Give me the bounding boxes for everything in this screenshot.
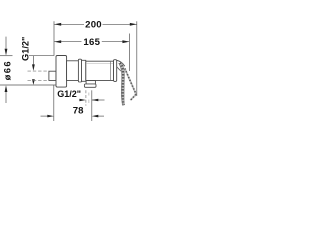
dia66 bottom extension line xyxy=(0,84,56,86)
handle grip band base xyxy=(120,63,124,105)
wall extension line bottom xyxy=(53,85,55,121)
G1/2 bottom leader arrow left xyxy=(79,99,86,102)
dimension 200 arrowheads xyxy=(54,23,137,26)
flange ring B xyxy=(82,60,86,81)
dimension 165 line xyxy=(54,41,129,43)
outlet hidden thread left xyxy=(85,90,87,105)
handle lower attach edge xyxy=(117,67,121,71)
dimension 200 line xyxy=(54,23,137,25)
body tube xyxy=(67,61,79,81)
dia66 top arrow xyxy=(5,37,8,56)
escutcheon plate xyxy=(56,56,67,88)
body shading line xyxy=(86,62,113,64)
G1/2 bottom leader arrow right xyxy=(92,99,105,102)
hidden supply pipe bottom line xyxy=(28,79,49,81)
extension line right 165 xyxy=(128,34,130,72)
inlet pipe xyxy=(49,71,56,80)
hidden supply pipe top line xyxy=(28,70,49,72)
dimension 165 arrowheads xyxy=(54,40,129,43)
svg-text:78: 78 xyxy=(73,106,84,117)
end cap xyxy=(114,60,117,82)
handle paddle band base xyxy=(125,69,136,101)
dia66 bottom arrow xyxy=(5,85,8,103)
G1/2 left leader horizontal xyxy=(29,55,54,57)
dimension 78 line right xyxy=(92,115,104,118)
flange ring A xyxy=(78,59,81,82)
dimension 78 line left xyxy=(41,115,54,118)
svg-text:ø66: ø66 xyxy=(2,60,13,80)
outlet extension line right xyxy=(91,90,93,121)
outlet flange xyxy=(84,84,96,87)
G1/2 left leader arrow upper xyxy=(32,56,35,71)
wall extension line top xyxy=(53,21,55,55)
G1/2 left leader arrow lower xyxy=(32,79,35,85)
svg-text:G1/2": G1/2" xyxy=(21,37,31,61)
body inner line xyxy=(110,61,112,80)
extension line right 200 xyxy=(136,21,138,96)
body center line xyxy=(57,70,117,72)
valve body xyxy=(86,61,114,80)
dia66 top extension line xyxy=(0,55,13,57)
handle paddle band hatch xyxy=(125,69,136,101)
outlet center line dashes xyxy=(88,93,90,96)
handle grip band hatch xyxy=(120,63,124,105)
handle top edge xyxy=(117,60,125,66)
handle grip left edge xyxy=(119,63,123,105)
handle grip right edge xyxy=(122,63,125,105)
svg-text:G1/2": G1/2" xyxy=(57,89,81,99)
svg-text:165: 165 xyxy=(83,37,100,48)
svg-text:200: 200 xyxy=(85,20,102,31)
outlet neck xyxy=(86,81,95,84)
